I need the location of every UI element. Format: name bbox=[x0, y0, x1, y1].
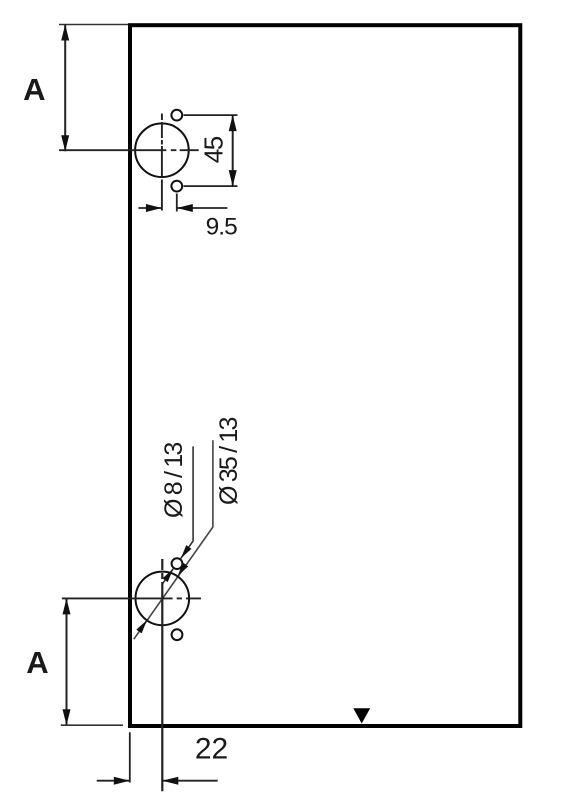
dim A top: arrow down bbox=[61, 135, 69, 151]
panel outline bbox=[130, 25, 520, 726]
arrow Ø8 lower (up-right) with tail bbox=[162, 569, 173, 585]
dim A bottom: dimension line bbox=[66, 598, 68, 725]
arrow Ø35 upper (down-left) bbox=[175, 563, 188, 578]
svg-text:9.5: 9.5 bbox=[206, 214, 237, 241]
dim A bottom: arrow up bbox=[63, 598, 71, 614]
pilot hole bottom-upper (Ø8) bbox=[172, 558, 183, 569]
dim 22: extension line from panel edge bbox=[129, 732, 131, 782]
dim A top: extension line at panel top bbox=[59, 24, 128, 26]
dim 22: arrow right bbox=[114, 777, 130, 785]
svg-text:Ø 35 / 13: Ø 35 / 13 bbox=[215, 417, 243, 505]
dim 45: extension line upper bbox=[184, 114, 238, 116]
dim 9.5: extension line from lower pilot hole bbox=[176, 194, 178, 212]
dim 22: left segment bbox=[97, 780, 130, 782]
centerline vertical top bbox=[161, 114, 163, 211]
hinge cup hole top (Ø35) bbox=[135, 123, 189, 177]
dim 45: dimension line bbox=[232, 115, 234, 186]
dim A bottom: extension line bbox=[61, 724, 123, 726]
dim 22: right segment bbox=[162, 780, 217, 782]
hinge cup hole bottom (Ø35) bbox=[136, 572, 190, 626]
svg-text:A: A bbox=[23, 72, 45, 107]
dim 45: extension line lower bbox=[184, 185, 238, 187]
svg-text:45: 45 bbox=[199, 136, 229, 163]
dim 9.5: arrow left bbox=[177, 204, 193, 212]
dim 45: arrow down bbox=[229, 170, 237, 186]
arrow Ø8 upper (down-left) bbox=[178, 545, 191, 560]
svg-text:Ø 8 / 13: Ø 8 / 13 bbox=[160, 443, 188, 518]
dim 9.5: arrow right bbox=[146, 204, 162, 212]
dim A top: dimension line bbox=[64, 25, 66, 152]
dim A bottom: arrow down bbox=[63, 709, 71, 725]
arrow Ø35 lower (up-right) bbox=[136, 618, 149, 633]
dim A top: arrow up bbox=[61, 25, 69, 41]
label leader Ø8/13 bbox=[181, 446, 193, 558]
pilot hole top-upper (Ø8) bbox=[171, 110, 182, 121]
triangle marker on bottom edge bbox=[353, 708, 370, 723]
centerline vertical bottom bbox=[161, 559, 163, 791]
label leader Ø35/13 (through cup hole) bbox=[134, 440, 213, 639]
dim 9.5: dimension line bbox=[138, 207, 162, 209]
svg-text:A: A bbox=[26, 645, 48, 680]
svg-text:22: 22 bbox=[195, 733, 228, 766]
pilot hole top-lower (Ø8) bbox=[171, 181, 182, 192]
dim 45: arrow up bbox=[229, 115, 237, 131]
pilot hole bottom-lower (Ø8) bbox=[172, 629, 183, 640]
centerline horizontal top bbox=[59, 149, 199, 151]
dim 22: arrow left bbox=[162, 777, 178, 785]
centerline horizontal bottom bbox=[62, 597, 201, 599]
